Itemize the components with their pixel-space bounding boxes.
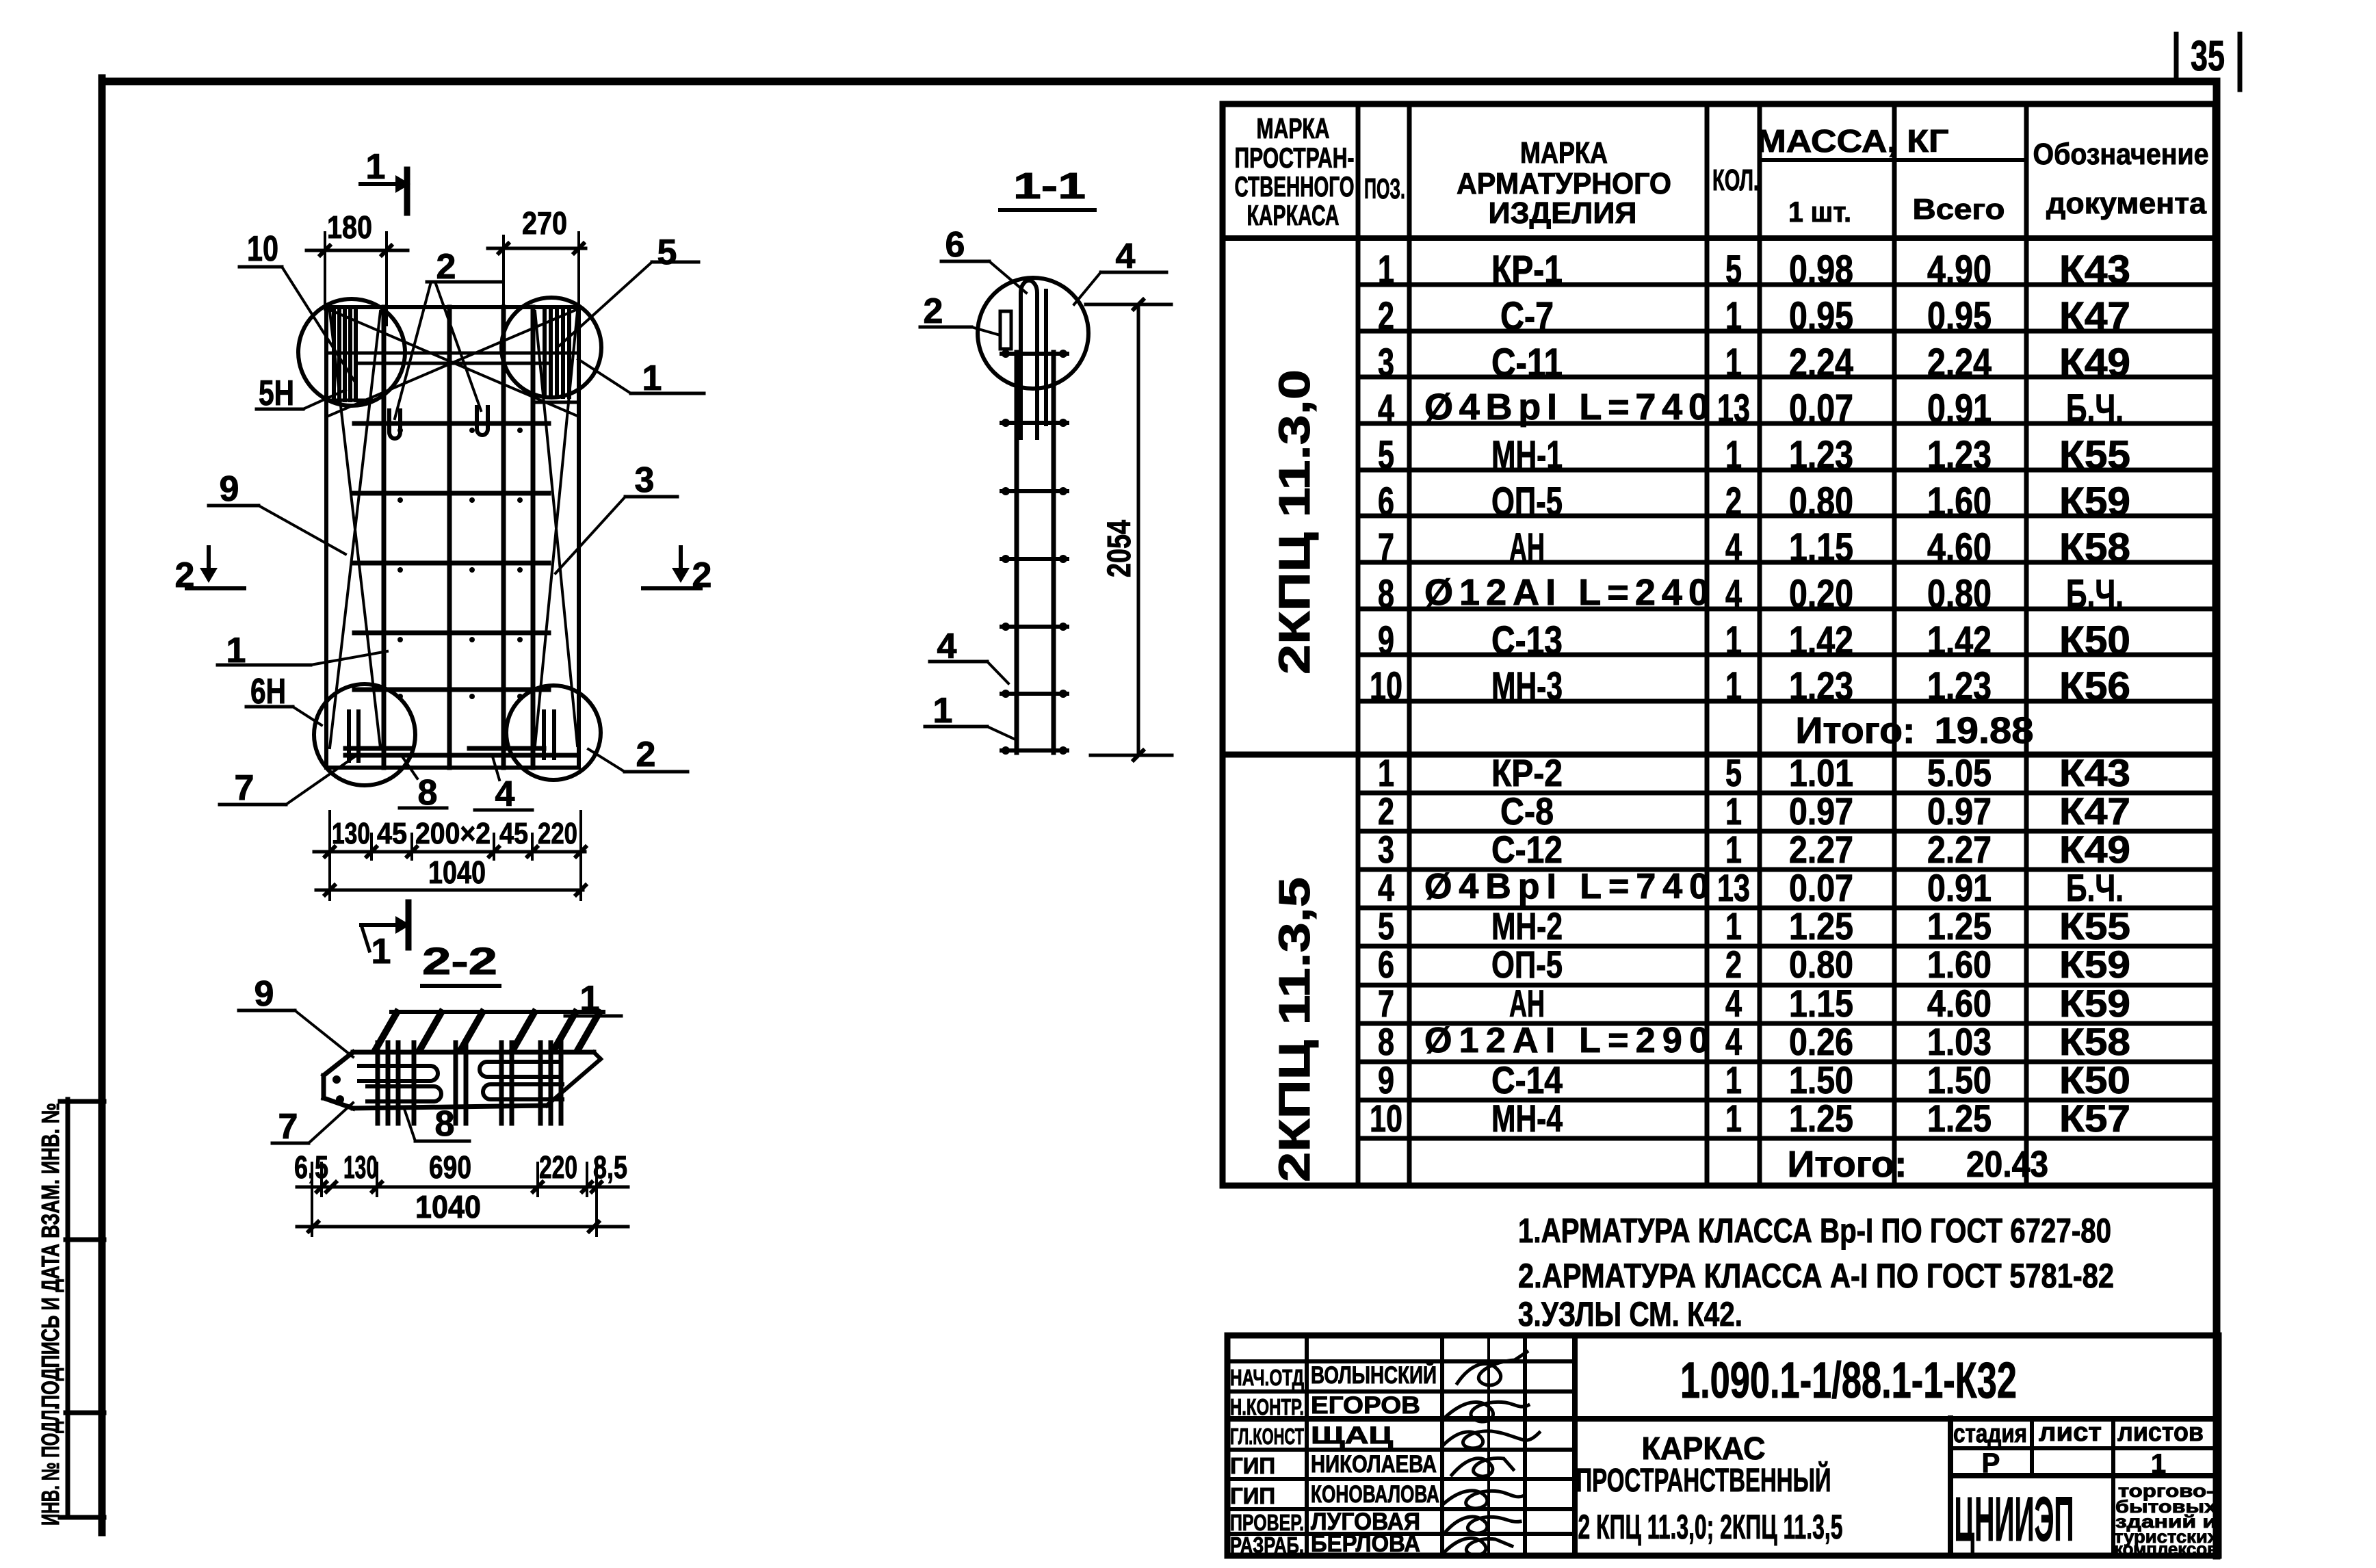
svg-text:8,5: 8,5 <box>593 1149 627 1185</box>
svg-text:5: 5 <box>1725 248 1742 292</box>
svg-text:9: 9 <box>1378 618 1394 663</box>
leader label 4 section bottom <box>930 627 1008 683</box>
table section 2 rows <box>1370 751 2130 1140</box>
svg-text:1.03: 1.03 <box>1927 1020 1992 1063</box>
svg-text:С-13: С-13 <box>1491 618 1563 663</box>
svg-text:0.20: 0.20 <box>1789 572 1853 616</box>
leader label 1 right <box>578 358 704 398</box>
svg-text:МАРКА: МАРКА <box>1520 136 1608 170</box>
top-left corner bar cluster <box>334 307 356 400</box>
section 1-1 title <box>1000 166 1095 210</box>
svg-text:АРМАТУРНОГО: АРМАТУРНОГО <box>1457 167 1671 200</box>
svg-text:4.60: 4.60 <box>1927 525 1992 570</box>
svg-text:2КПЦ 11.3,0: 2КПЦ 11.3,0 <box>1270 369 1319 675</box>
svg-text:1: 1 <box>1725 1097 1742 1140</box>
right X brace <box>535 311 577 746</box>
svg-text:2-2: 2-2 <box>422 939 497 982</box>
svg-text:1 шт.: 1 шт. <box>1788 196 1851 228</box>
title block object name <box>1576 1430 1843 1546</box>
title block role labels <box>1230 1365 1304 1558</box>
svg-text:20.43: 20.43 <box>1966 1144 2048 1185</box>
section mark 1 top <box>361 147 410 213</box>
dimension 270 <box>488 205 586 322</box>
svg-text:10: 10 <box>1370 1097 1402 1140</box>
svg-text:5Н: 5Н <box>259 374 294 413</box>
svg-text:К57: К57 <box>2059 1097 2130 1140</box>
left margin stamp column <box>60 1099 104 1517</box>
leader label 2 bottom right <box>588 735 688 774</box>
svg-text:130: 130 <box>332 817 370 850</box>
svg-text:0.80: 0.80 <box>1789 480 1853 524</box>
svg-text:5: 5 <box>1378 904 1394 948</box>
svg-text:2.27: 2.27 <box>1789 828 1853 871</box>
svg-text:К56: К56 <box>2059 664 2130 709</box>
svg-text:МН-2: МН-2 <box>1491 904 1563 948</box>
svg-text:2054: 2054 <box>1101 520 1138 577</box>
svg-text:С-14: С-14 <box>1491 1058 1563 1101</box>
svg-text:1: 1 <box>2151 1449 2166 1479</box>
section mark 2 right <box>643 547 712 595</box>
svg-text:2: 2 <box>1725 480 1742 524</box>
svg-text:ИЗДЕЛИЯ: ИЗДЕЛИЯ <box>1489 196 1637 230</box>
svg-text:Всего: Всего <box>1913 193 2005 225</box>
svg-text:К59: К59 <box>2059 943 2130 986</box>
svg-text:2 КПЦ 11.3,0; 2КПЦ 11.3,5: 2 КПЦ 11.3,0; 2КПЦ 11.3,5 <box>1578 1508 1843 1546</box>
title block grid <box>1227 1335 2219 1556</box>
svg-text:1: 1 <box>1725 789 1742 833</box>
leader label 3 <box>556 460 677 573</box>
svg-text:1: 1 <box>1378 751 1394 794</box>
svg-text:ПОДПИСЬ И ДАТА: ПОДПИСЬ И ДАТА <box>36 1244 64 1408</box>
svg-text:НИКОЛАЕВА: НИКОЛАЕВА <box>1311 1451 1437 1478</box>
svg-text:ГИП: ГИП <box>1230 1483 1275 1508</box>
svg-text:10: 10 <box>1370 664 1402 709</box>
svg-text:8: 8 <box>1378 1020 1394 1063</box>
svg-text:Н.КОНТР.: Н.КОНТР. <box>1230 1394 1304 1420</box>
svg-text:1.15: 1.15 <box>1789 982 1853 1025</box>
svg-text:ВОЛЫНСКИЙ: ВОЛЫНСКИЙ <box>1311 1361 1437 1389</box>
svg-text:ГИП: ГИП <box>1230 1453 1275 1478</box>
svg-text:ОП-5: ОП-5 <box>1491 943 1563 986</box>
svg-text:5: 5 <box>657 233 677 272</box>
svg-text:1.25: 1.25 <box>1927 1097 1992 1140</box>
svg-text:ГЛ.КОНСТ: ГЛ.КОНСТ <box>1230 1424 1304 1449</box>
svg-text:МН-4: МН-4 <box>1491 1097 1563 1140</box>
plan bottom dimension 1040 <box>316 854 586 895</box>
svg-text:8: 8 <box>1378 572 1394 616</box>
svg-text:9: 9 <box>254 974 274 1014</box>
leader label 5 <box>560 233 699 345</box>
svg-text:КОЛ.: КОЛ. <box>1712 164 1759 197</box>
svg-text:1.АРМАТУРА КЛАССА Вр-I ПО ГО: 1.АРМАТУРА КЛАССА Вр-I ПО ГОСТ 6727-80 <box>1518 1212 2111 1250</box>
svg-text:4: 4 <box>1725 982 1742 1025</box>
title block names <box>1311 1361 1439 1557</box>
svg-text:10: 10 <box>247 229 278 269</box>
plan bottom dimension row 130-45-200x2-45-220 <box>314 811 586 900</box>
table section 2 total <box>1788 1144 2049 1185</box>
section 2-2 title <box>422 939 499 986</box>
svg-text:К43: К43 <box>2059 248 2130 292</box>
svg-text:4.90: 4.90 <box>1927 248 1992 292</box>
svg-text:МН-3: МН-3 <box>1491 664 1563 709</box>
svg-text:1.25: 1.25 <box>1789 904 1853 948</box>
svg-text:1: 1 <box>1725 618 1742 663</box>
svg-text:1: 1 <box>580 979 600 1019</box>
svg-text:2.24: 2.24 <box>1789 341 1853 385</box>
svg-text:К50: К50 <box>2059 618 2130 663</box>
svg-text:0.97: 0.97 <box>1927 789 1992 833</box>
detail circle top-right <box>501 298 601 397</box>
section mark 1 bottom <box>361 902 410 971</box>
svg-text:ПРОВЕР.: ПРОВЕР. <box>1230 1510 1304 1535</box>
svg-text:КР-1: КР-1 <box>1491 248 1563 292</box>
svg-text:0.91: 0.91 <box>1927 866 1992 909</box>
svg-text:0.80: 0.80 <box>1789 943 1853 986</box>
svg-text:документа: документа <box>2046 187 2207 220</box>
svg-text:1: 1 <box>1725 904 1742 948</box>
svg-text:Р: Р <box>1982 1448 2000 1478</box>
section 2-2 dimension 1040 <box>297 1189 628 1231</box>
svg-text:6: 6 <box>1378 943 1394 986</box>
svg-text:6: 6 <box>1378 480 1394 524</box>
svg-text:45: 45 <box>377 817 407 850</box>
svg-text:К59: К59 <box>2059 480 2130 524</box>
svg-text:КАРКАС: КАРКАС <box>1642 1430 1766 1466</box>
svg-text:К50: К50 <box>2059 1058 2130 1101</box>
section 1-1 detail circle <box>978 278 1088 389</box>
table section 1 rows <box>1370 248 2130 709</box>
leader label 5N <box>257 374 345 413</box>
svg-text:4: 4 <box>1378 866 1394 909</box>
svg-text:Ø12АI L=290: Ø12АI L=290 <box>1424 1021 1709 1060</box>
svg-text:К49: К49 <box>2059 828 2130 871</box>
svg-text:1: 1 <box>1725 433 1742 478</box>
organization small text block <box>2114 1480 2219 1559</box>
dimension 2054 <box>1086 300 1172 760</box>
svg-text:220: 220 <box>539 1149 577 1185</box>
svg-text:1.25: 1.25 <box>1789 1097 1853 1140</box>
svg-text:3: 3 <box>1378 341 1394 385</box>
svg-text:КР-2: КР-2 <box>1491 751 1563 794</box>
svg-text:0.80: 0.80 <box>1927 572 1992 616</box>
dimension 180 <box>306 209 408 325</box>
svg-text:0.97: 0.97 <box>1789 789 1853 833</box>
svg-text:1: 1 <box>371 932 391 971</box>
svg-text:9: 9 <box>1378 1058 1394 1101</box>
section 1-1 top hook bars <box>1021 280 1046 438</box>
leader label 8 section 2-2 <box>404 1104 469 1144</box>
svg-text:7: 7 <box>1378 982 1394 1025</box>
section 2-2 transverse bar clusters <box>378 1043 561 1123</box>
svg-text:комплексов: комплексов <box>2114 1539 2218 1559</box>
title block signatures <box>1442 1352 1539 1555</box>
section 2-2 hatch bars item 1 <box>376 1012 603 1049</box>
leader label 9 <box>209 469 345 554</box>
svg-text:1.23: 1.23 <box>1789 433 1853 478</box>
svg-text:7: 7 <box>235 768 254 808</box>
left X brace <box>330 311 380 748</box>
plan view cage outline <box>326 307 579 768</box>
svg-text:ЦНИИЭП: ЦНИИЭП <box>1955 1485 2074 1554</box>
svg-text:НАЧ.ОТД: НАЧ.ОТД <box>1230 1365 1304 1390</box>
svg-text:4.60: 4.60 <box>1927 982 1992 1025</box>
svg-text:8: 8 <box>435 1104 455 1144</box>
svg-text:АН: АН <box>1509 982 1545 1025</box>
leader label 2 top <box>395 247 502 419</box>
svg-text:690: 690 <box>429 1149 471 1185</box>
section 2-2 hook loop left upper <box>359 1066 438 1081</box>
table header texts <box>1235 112 2209 231</box>
leader label 1 section 2-2 <box>565 979 621 1019</box>
parts table grid <box>1223 104 2215 1186</box>
svg-text:1: 1 <box>933 691 953 731</box>
svg-text:ПРОСТРАНСТВЕННЫЙ: ПРОСТРАНСТВЕННЫЙ <box>1576 1461 1831 1499</box>
top X brace <box>328 309 577 416</box>
svg-text:7: 7 <box>1378 525 1394 570</box>
svg-text:13: 13 <box>1717 866 1750 909</box>
svg-text:К58: К58 <box>2059 525 2130 570</box>
svg-text:КАРКАСА: КАРКАСА <box>1247 199 1340 231</box>
leader label 1 section bottom <box>925 691 1014 739</box>
svg-text:220: 220 <box>538 817 577 850</box>
svg-text:С-7: С-7 <box>1500 294 1554 339</box>
svg-text:ИНВ. № ПОДЛ.: ИНВ. № ПОДЛ. <box>36 1405 64 1526</box>
svg-text:К55: К55 <box>2059 904 2130 948</box>
svg-text:1.60: 1.60 <box>1927 943 1992 986</box>
svg-text:К43: К43 <box>2059 751 2130 794</box>
leader label 6 section <box>941 225 1026 293</box>
svg-text:19.88: 19.88 <box>1935 710 2034 751</box>
svg-text:АН: АН <box>1509 525 1545 570</box>
svg-text:МАРКА: МАРКА <box>1257 112 1330 144</box>
svg-text:0.07: 0.07 <box>1789 387 1853 431</box>
left U hook bar <box>389 410 400 439</box>
leader label 4 section top <box>1074 237 1166 304</box>
svg-text:С-8: С-8 <box>1500 789 1554 833</box>
svg-text:2: 2 <box>1378 294 1394 339</box>
svg-text:К47: К47 <box>2059 294 2130 339</box>
svg-text:1.60: 1.60 <box>1927 480 1992 524</box>
section 2-2 dimension row 6,5-130-690-220-8,5 <box>294 1149 628 1236</box>
leader label 7 section 2-2 <box>272 1103 353 1147</box>
leader label 6N <box>246 672 322 725</box>
section 2-2 hook loop right lower <box>483 1084 562 1099</box>
svg-text:Б.Ч.: Б.Ч. <box>2066 387 2124 431</box>
page number 35 cell <box>2176 33 2240 90</box>
svg-text:1040: 1040 <box>415 1189 481 1225</box>
svg-text:К59: К59 <box>2059 982 2130 1025</box>
top-right corner bar cluster <box>545 307 569 397</box>
section 2-2 hook loop left lower <box>367 1086 441 1101</box>
right U hook bar <box>477 407 488 435</box>
svg-text:1: 1 <box>1725 1058 1742 1101</box>
leader label 1 left <box>218 631 387 670</box>
svg-text:2.АРМАТУРА КЛАССА А-I ПО ГОС: 2.АРМАТУРА КЛАССА А-I ПО ГОСТ 5781-82 <box>1518 1257 2114 1295</box>
svg-text:Итого:: Итого: <box>1796 710 1916 751</box>
svg-text:Ø4ВрI L=740: Ø4ВрI L=740 <box>1424 867 1709 906</box>
svg-text:1: 1 <box>1378 248 1394 292</box>
svg-text:45: 45 <box>499 817 528 850</box>
detail circle top-left <box>298 299 405 406</box>
svg-text:4: 4 <box>1725 572 1742 616</box>
svg-text:1.23: 1.23 <box>1927 664 1992 709</box>
svg-text:К49: К49 <box>2059 341 2130 385</box>
svg-text:1.01: 1.01 <box>1789 751 1853 794</box>
svg-text:С-11: С-11 <box>1491 341 1563 385</box>
svg-text:5.05: 5.05 <box>1927 751 1992 794</box>
svg-text:1: 1 <box>366 147 386 187</box>
svg-text:1.090.1-1/88.1-1-К32: 1.090.1-1/88.1-1-К32 <box>1680 1352 2017 1409</box>
svg-text:1: 1 <box>1725 828 1742 871</box>
leader label 10 <box>239 229 356 383</box>
svg-text:лист: лист <box>2039 1418 2102 1447</box>
svg-text:ЕГОРОВ: ЕГОРОВ <box>1311 1392 1420 1419</box>
svg-text:1.23: 1.23 <box>1927 433 1992 478</box>
svg-text:5: 5 <box>1725 751 1742 794</box>
svg-text:ВЗАМ. ИНВ. №: ВЗАМ. ИНВ. № <box>36 1103 64 1238</box>
svg-text:3: 3 <box>1378 828 1394 871</box>
leader label 2 section <box>920 291 1000 335</box>
svg-text:Ø12АI L=240: Ø12АI L=240 <box>1424 572 1709 613</box>
svg-text:2: 2 <box>1725 943 1742 986</box>
svg-text:4: 4 <box>495 774 515 814</box>
svg-text:КОНОВАЛОВА: КОНОВАЛОВА <box>1311 1481 1439 1508</box>
svg-text:9: 9 <box>220 469 239 509</box>
svg-text:6: 6 <box>945 225 965 265</box>
plan transverse rungs <box>345 423 578 755</box>
detail circle bottom-left <box>314 684 415 785</box>
bottom-left corner bars <box>349 711 358 761</box>
svg-text:1: 1 <box>1725 341 1742 385</box>
svg-text:4: 4 <box>1725 1020 1742 1063</box>
svg-text:1.23: 1.23 <box>1789 664 1853 709</box>
svg-text:180: 180 <box>327 209 372 245</box>
svg-text:2: 2 <box>924 291 943 331</box>
svg-text:2.27: 2.27 <box>1927 828 1992 871</box>
svg-text:2: 2 <box>1378 789 1394 833</box>
leader label 8 plan <box>400 757 447 813</box>
svg-text:стадия: стадия <box>1953 1420 2027 1448</box>
svg-text:1.42: 1.42 <box>1789 618 1853 663</box>
section 2-2 hook loop right upper <box>480 1062 558 1077</box>
svg-text:1: 1 <box>1725 664 1742 709</box>
svg-text:2: 2 <box>636 735 656 774</box>
svg-text:35: 35 <box>2191 33 2225 80</box>
detail circle bottom-right <box>506 685 601 780</box>
svg-text:Ø4ВрI L=740: Ø4ВрI L=740 <box>1424 387 1709 428</box>
svg-text:МН-1: МН-1 <box>1491 433 1563 478</box>
svg-text:Итого:: Итого: <box>1788 1144 1907 1185</box>
svg-text:листов: листов <box>2117 1418 2204 1447</box>
svg-text:С-12: С-12 <box>1491 828 1563 871</box>
plan rung intersection dots <box>397 428 523 699</box>
svg-text:0.91: 0.91 <box>1927 387 1992 431</box>
svg-text:200×2: 200×2 <box>415 817 491 850</box>
section 1-1 mesh plate <box>1000 311 1011 349</box>
svg-text:РАЗРАБ.: РАЗРАБ. <box>1230 1532 1304 1558</box>
svg-text:БЕРЛОВА: БЕРЛОВА <box>1311 1530 1420 1557</box>
svg-text:МАССА, КГ: МАССА, КГ <box>1757 123 1949 159</box>
svg-text:ПОЗ.: ПОЗ. <box>1364 172 1405 205</box>
section 2-2 body outline <box>324 1052 601 1108</box>
plan longitudinal bars <box>384 307 533 768</box>
svg-text:1.15: 1.15 <box>1789 525 1853 570</box>
svg-text:К58: К58 <box>2059 1020 2130 1063</box>
svg-text:4: 4 <box>1725 525 1742 570</box>
section 1-1 ladder <box>1002 350 1067 755</box>
svg-text:0.95: 0.95 <box>1789 294 1853 339</box>
section mark 2 left <box>175 547 244 595</box>
svg-text:0.95: 0.95 <box>1927 294 1992 339</box>
svg-text:1.50: 1.50 <box>1789 1058 1853 1101</box>
svg-text:0.26: 0.26 <box>1789 1020 1853 1063</box>
leader label 9 section 2-2 <box>239 974 353 1057</box>
svg-text:7: 7 <box>278 1107 298 1147</box>
svg-text:0.07: 0.07 <box>1789 866 1853 909</box>
svg-text:270: 270 <box>522 205 567 241</box>
svg-text:ПРОСТРАН-: ПРОСТРАН- <box>1235 142 1355 174</box>
svg-text:13: 13 <box>1717 387 1750 431</box>
svg-text:2.24: 2.24 <box>1927 341 1992 385</box>
svg-text:1-1: 1-1 <box>1013 166 1086 207</box>
svg-text:ЩАЦ: ЩАЦ <box>1311 1422 1394 1449</box>
svg-text:Б.Ч.: Б.Ч. <box>2066 866 2124 909</box>
svg-text:4: 4 <box>1378 387 1394 431</box>
svg-text:3.УЗЛЫ СМ. К42.: 3.УЗЛЫ СМ. К42. <box>1518 1295 1742 1333</box>
svg-text:1.42: 1.42 <box>1927 618 1992 663</box>
bottom-right corner bars <box>544 711 554 758</box>
svg-text:К47: К47 <box>2059 789 2130 833</box>
svg-text:1.50: 1.50 <box>1927 1058 1992 1101</box>
svg-text:Б.Ч.: Б.Ч. <box>2066 572 2124 616</box>
leader label 7 plan <box>220 756 356 808</box>
svg-text:ОП-5: ОП-5 <box>1491 480 1563 524</box>
svg-text:1: 1 <box>1725 294 1742 339</box>
svg-text:2КПЦ 11.3,5: 2КПЦ 11.3,5 <box>1270 877 1319 1182</box>
svg-text:3: 3 <box>635 460 655 500</box>
table section 1 total <box>1796 710 2034 751</box>
svg-text:1040: 1040 <box>428 854 486 890</box>
svg-text:1.25: 1.25 <box>1927 904 1992 948</box>
svg-text:5: 5 <box>1378 433 1394 478</box>
svg-text:130: 130 <box>343 1149 378 1185</box>
svg-text:СТВЕННОГО: СТВЕННОГО <box>1235 170 1355 202</box>
svg-text:Обозначение: Обозначение <box>2033 138 2209 171</box>
stadia list listov header <box>1953 1418 2204 1479</box>
svg-text:0.98: 0.98 <box>1789 248 1853 292</box>
leader label 4 plan <box>475 757 532 814</box>
svg-text:4: 4 <box>1116 237 1136 276</box>
svg-text:К55: К55 <box>2059 433 2130 478</box>
